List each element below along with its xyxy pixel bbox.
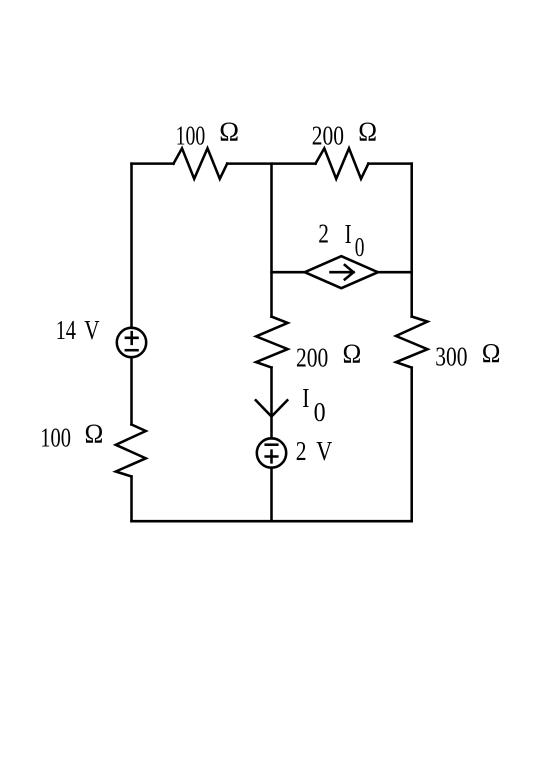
- svg-text:14: 14: [56, 315, 77, 345]
- V2 minus sign: [266, 443, 278, 446]
- wire left rail middle: [130, 358, 133, 425]
- voltage source V1 14 V (circle): [117, 328, 146, 357]
- svg-text:I: I: [345, 219, 352, 249]
- svg-text:200: 200: [312, 121, 344, 151]
- wire left rail upper: [130, 164, 133, 328]
- svg-text:V: V: [84, 315, 100, 345]
- V1 minus sign: [126, 349, 138, 352]
- resistor R2 200 ohm (top horizontal): [316, 148, 369, 179]
- svg-text:200: 200: [296, 342, 328, 372]
- wire middle rail with current arrow: [270, 368, 273, 439]
- svg-text:2: 2: [296, 436, 307, 466]
- svg-text:100: 100: [40, 422, 71, 452]
- wire right rail lower: [410, 368, 413, 522]
- svg-text:Ω: Ω: [219, 117, 239, 147]
- label 300 ohm value of R5: [435, 338, 500, 372]
- resistor R5 300 ohm (right vertical): [396, 317, 428, 368]
- resistor R1 100 ohm (top horizontal): [174, 148, 228, 179]
- dependent source arrow: [331, 265, 354, 279]
- label 200 ohm value of R2: [312, 117, 377, 151]
- svg-text:100: 100: [176, 121, 206, 151]
- label 14 V value of V1: [56, 315, 100, 345]
- wire top-right segment: [368, 162, 411, 165]
- svg-text:0: 0: [314, 397, 326, 427]
- svg-text:Ω: Ω: [343, 339, 362, 369]
- svg-text:V: V: [316, 436, 332, 466]
- voltage source V2 2 V (circle): [257, 438, 286, 467]
- svg-text:Ω: Ω: [482, 338, 501, 368]
- resistor R3 100 ohm (left vertical): [116, 425, 146, 477]
- wire dependent-source row right: [378, 271, 412, 274]
- resistor R4 200 ohm (middle vertical): [256, 317, 288, 368]
- dependent current source 2 I0 (diamond): [305, 256, 378, 288]
- wire left rail lower: [130, 477, 133, 522]
- label 100 ohm value of R1: [176, 117, 239, 151]
- wire top-left segment: [132, 162, 174, 165]
- wire right rail upper: [410, 164, 413, 317]
- wire dependent-source row left: [272, 271, 305, 274]
- label 2 V value of V2: [296, 436, 333, 466]
- V2 plus sign: [266, 451, 278, 463]
- svg-text:300: 300: [435, 342, 467, 372]
- label I0 current name: [302, 383, 325, 427]
- wire middle rail upper: [270, 164, 273, 317]
- svg-text:Ω: Ω: [85, 419, 104, 449]
- label 2 I0 value of dependent source: [318, 218, 364, 262]
- wire middle rail lower: [270, 468, 273, 522]
- svg-text:0: 0: [355, 232, 365, 262]
- svg-text:2: 2: [318, 218, 329, 248]
- wire top-middle segment: [227, 162, 315, 165]
- V1 plus sign: [126, 332, 138, 344]
- svg-text:I: I: [302, 383, 309, 413]
- label 200 ohm value of R4: [296, 339, 361, 373]
- svg-text:Ω: Ω: [358, 117, 377, 147]
- current arrow I0 (arrowhead): [256, 400, 287, 416]
- wire bottom rail: [132, 520, 412, 523]
- label 100 ohm value of R3: [40, 419, 103, 453]
